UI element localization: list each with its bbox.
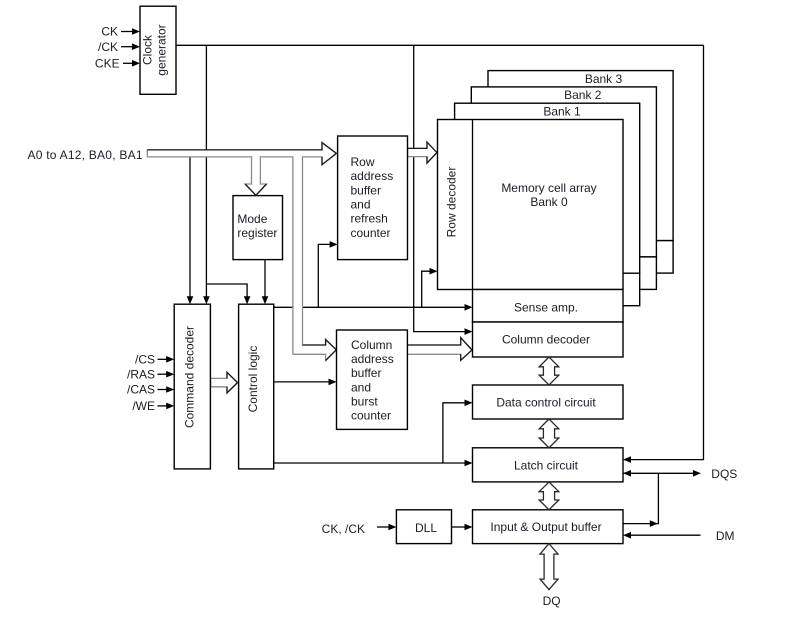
arrowhead: CK /CK into DLL bbox=[388, 524, 396, 531]
svg-text:Input & Output buffer: Input & Output buffer bbox=[490, 520, 601, 534]
svg-text:DQS: DQS bbox=[711, 467, 737, 481]
arrowhead: clock into command decoder bbox=[203, 296, 210, 304]
wire: clock vertical drop to command decoder bbox=[205, 45, 207, 296]
wire: control logic to column address buffer bbox=[274, 381, 330, 383]
arrowhead: control logic into sense amp bbox=[465, 304, 473, 311]
svg-text:buffer: buffer bbox=[351, 183, 381, 197]
svg-text:Command decoder: Command decoder bbox=[182, 326, 196, 428]
box: Clock generator bbox=[140, 6, 176, 94]
svg-text:refresh: refresh bbox=[351, 212, 388, 226]
svg-text:address: address bbox=[351, 169, 394, 183]
arrowhead: control logic into latch circuit bbox=[465, 460, 473, 467]
arrowhead: /CS into command decoder bbox=[166, 356, 174, 363]
double-arrow: column decoder to data control circuit bbox=[539, 357, 559, 385]
arrowhead: CKE into clock generator bbox=[132, 60, 140, 67]
arrowhead: out to DQS pad bbox=[693, 470, 701, 477]
arrowhead: /CAS into command decoder bbox=[166, 386, 174, 393]
wire: /CK input bbox=[121, 46, 133, 48]
svg-text:A0 to A12, BA0, BA1: A0 to A12, BA0, BA1 bbox=[28, 148, 143, 162]
bus: command decoder to control logic hollow arrow bbox=[211, 372, 238, 393]
box: Command decoder bbox=[174, 304, 210, 469]
box: Bank 1 sense amp strip bbox=[489, 273, 640, 306]
bus overdraw: address bus top line and arrowhead bbox=[147, 143, 336, 165]
svg-text:Clock: Clock bbox=[141, 34, 155, 65]
wire: control logic to sense amp bbox=[274, 306, 465, 308]
wire: address branch down to command decoder bbox=[189, 157, 191, 297]
arrowhead: address into command decoder bbox=[187, 296, 194, 304]
box: Bank 1 memory array bbox=[455, 103, 640, 273]
svg-text:Bank 3: Bank 3 bbox=[585, 72, 623, 86]
svg-text:counter: counter bbox=[351, 409, 391, 423]
svg-text:counter: counter bbox=[351, 226, 391, 240]
svg-text:DQ: DQ bbox=[543, 594, 561, 608]
svg-text:Bank 2: Bank 2 bbox=[564, 88, 602, 102]
bus overdraw: command-control arrow head bbox=[227, 372, 238, 393]
divider: row decoder partition line bbox=[472, 120, 474, 290]
arrowhead: into row address buffer bbox=[330, 241, 338, 248]
wire: /RAS input bbox=[158, 373, 168, 375]
wire: branch up to row decoder bbox=[422, 271, 431, 307]
box: Column decoder bbox=[473, 322, 624, 357]
box: Bank 3 memory array bbox=[488, 71, 673, 241]
svg-text:/WE: /WE bbox=[132, 399, 155, 413]
wire: right-side vertical clock net down to latch circuit bbox=[629, 45, 704, 459]
box: DLL bbox=[396, 510, 451, 544]
double-arrow: input output buffer to DQ pad bbox=[540, 544, 558, 590]
arrowhead: /CK into clock generator bbox=[132, 43, 140, 50]
arrowhead: control logic into column address buffer bbox=[329, 379, 337, 386]
wire: CK input bbox=[121, 31, 133, 33]
wire: clock branch to control logic bbox=[206, 284, 247, 297]
svg-text:Column decoder: Column decoder bbox=[502, 333, 590, 347]
box: Input and Output buffer bbox=[473, 510, 624, 544]
arrowhead: DM into input output buffer bbox=[623, 532, 631, 539]
arrowhead: clock into control logic bbox=[244, 296, 251, 304]
svg-text:address: address bbox=[351, 352, 394, 366]
bus overdraw: column arrow head bbox=[407, 338, 472, 361]
arrowhead: /WE into command decoder bbox=[166, 403, 174, 410]
svg-text:Control logic: Control logic bbox=[246, 346, 260, 413]
wire: DLL to input output buffer bbox=[452, 526, 466, 528]
arrowhead: clock into column decoder bbox=[465, 328, 473, 335]
wire: /CAS input bbox=[158, 389, 168, 391]
svg-text:DLL: DLL bbox=[415, 521, 437, 535]
wire: clock generator output horizontal net bbox=[176, 44, 704, 46]
bus: address bus A0-A12 BA0 BA1 with branches to mode register and column address buffer bbox=[147, 143, 336, 361]
bus overdraw: mode register arrow flare bbox=[245, 184, 266, 195]
bus: column address buffer to column decoder hollow arrow bbox=[407, 338, 472, 361]
svg-text:/CS: /CS bbox=[135, 353, 155, 367]
wire: DM input net bbox=[628, 534, 701, 536]
svg-text:/RAS: /RAS bbox=[127, 367, 155, 381]
box: Bank 2 memory array bbox=[471, 87, 656, 257]
box: Sense amp bbox=[473, 290, 624, 323]
wire: CKE input bbox=[123, 62, 133, 64]
svg-text:DM: DM bbox=[716, 529, 735, 543]
svg-text:and: and bbox=[351, 380, 371, 394]
wire: control logic bottom to latch circuit bbox=[274, 462, 465, 464]
wire: /WE input bbox=[158, 405, 168, 407]
svg-text:Memory cell array: Memory cell array bbox=[501, 181, 596, 195]
svg-text:buffer: buffer bbox=[351, 366, 381, 380]
box: Bank 2 sense amp strip bbox=[506, 257, 657, 290]
svg-text:and: and bbox=[351, 198, 371, 212]
double-arrow: data control circuit to latch circuit bbox=[539, 419, 559, 448]
wire: clock vertical drop to column decoder bbox=[414, 45, 465, 331]
box: Mode register bbox=[233, 196, 283, 260]
box: Column address buffer and burst counter bbox=[337, 330, 408, 429]
svg-text:Data control circuit: Data control circuit bbox=[496, 396, 596, 410]
bus overdraw: row arrow head bbox=[408, 142, 437, 163]
svg-text:CK: CK bbox=[101, 25, 118, 39]
svg-text:Column: Column bbox=[351, 338, 392, 352]
bus overdraw: column branch elbow and arrowhead bbox=[303, 340, 337, 361]
svg-text:Row: Row bbox=[351, 155, 375, 169]
svg-text:register: register bbox=[237, 226, 277, 240]
arrowhead: input output buffer to DQS branch bbox=[650, 520, 658, 527]
wire: /CS input bbox=[158, 358, 168, 360]
svg-text:/CK: /CK bbox=[98, 40, 118, 54]
arrowhead: mode register into control logic bbox=[262, 296, 269, 304]
svg-text:CKE: CKE bbox=[95, 57, 120, 71]
svg-text:burst: burst bbox=[351, 394, 378, 408]
svg-text:Sense amp.: Sense amp. bbox=[514, 301, 578, 315]
box: Bank 0 memory cell array with row decoder bbox=[438, 120, 624, 290]
box: Row address buffer and refresh counter bbox=[338, 136, 408, 260]
wire: CK,/CK to DLL bbox=[377, 526, 389, 528]
box: Control logic bbox=[239, 304, 274, 469]
svg-text:Latch circuit: Latch circuit bbox=[514, 459, 579, 473]
arrowhead: into row decoder bbox=[430, 268, 438, 275]
bus: row address buffer to row decoder hollow arrow bbox=[408, 142, 437, 163]
double-arrow: latch circuit to input output buffer bbox=[539, 482, 559, 510]
svg-text:Mode: Mode bbox=[237, 212, 267, 226]
box: Bank 3 sense amp strip bbox=[523, 241, 674, 274]
arrowhead: into data control circuit bbox=[465, 400, 473, 407]
svg-text:Bank 0: Bank 0 bbox=[530, 195, 568, 209]
box: Data control circuit bbox=[473, 385, 624, 419]
svg-text:Row decoder: Row decoder bbox=[445, 167, 459, 238]
arrowhead: CK into clock generator bbox=[132, 28, 140, 35]
wire: DQS branch from input output buffer bbox=[623, 473, 658, 523]
wire: branch up to row address buffer bbox=[318, 244, 330, 307]
wire: mode register output to control logic bbox=[264, 260, 266, 297]
arrowhead: DLL into input output buffer bbox=[465, 524, 473, 531]
svg-text:generator: generator bbox=[155, 24, 169, 75]
svg-text:CK, /CK: CK, /CK bbox=[322, 522, 365, 536]
svg-text:Bank 1: Bank 1 bbox=[543, 105, 581, 119]
wire: DQS bidirectional net bbox=[623, 472, 694, 474]
box: Latch circuit bbox=[473, 448, 624, 482]
wire: branch up to data control circuit bbox=[443, 403, 465, 463]
arrowhead: right clock net into latch circuit bbox=[623, 456, 631, 463]
arrowhead: DQS into latch circuit bbox=[623, 470, 631, 477]
svg-text:/CAS: /CAS bbox=[127, 383, 155, 397]
arrowhead: /RAS into command decoder bbox=[166, 371, 174, 378]
